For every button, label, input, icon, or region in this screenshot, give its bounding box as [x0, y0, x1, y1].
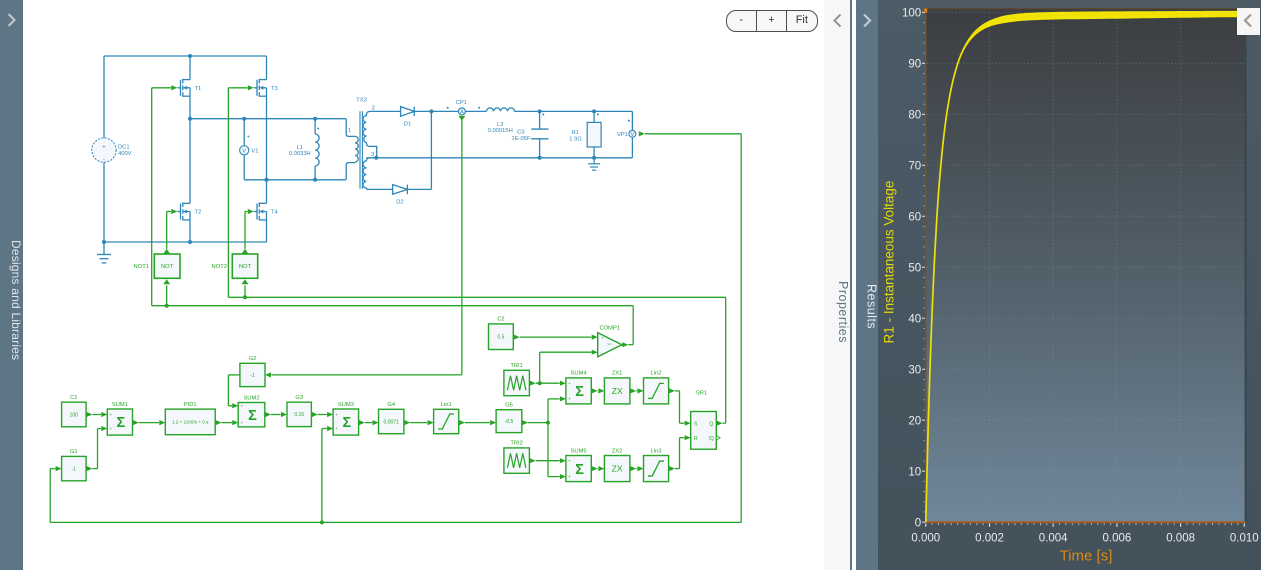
svg-text:!Q: !Q	[708, 436, 713, 442]
svg-text:Time [s]: Time [s]	[1060, 548, 1113, 565]
svg-text:Σ: Σ	[575, 462, 584, 478]
svg-text:Lin1: Lin1	[441, 402, 452, 408]
wire T1 source / T2 drain (left leg midpoint)	[189, 96, 191, 203]
svg-text:D2: D2	[396, 199, 403, 205]
svg-text:R1 - Instantaneous Voltage: R1 - Instantaneous Voltage	[882, 181, 897, 344]
axis ticks	[922, 12, 925, 522]
wire T3 drain	[266, 56, 268, 80]
wire bridge output top (node A)	[190, 118, 346, 120]
left sidebar: Designs and Libraries	[0, 0, 23, 570]
triangle-wave source TRI2	[504, 441, 530, 474]
transformer TX3	[355, 111, 393, 189]
svg-text:+: +	[568, 381, 571, 386]
inductor L2	[487, 108, 515, 134]
svg-text:ZX1: ZX1	[612, 371, 623, 377]
y tick labels	[902, 8, 921, 530]
wire T2 source	[189, 220, 191, 242]
svg-text:100: 100	[902, 8, 921, 20]
svg-text:Σ: Σ	[575, 384, 584, 400]
svg-text:1E-05F: 1E-05F	[511, 136, 530, 142]
svg-text:0.0033H: 0.0033H	[289, 151, 311, 157]
SR1 Q output arrow	[717, 421, 723, 426]
svg-text:T1: T1	[195, 86, 202, 92]
wire SUM1 to PID1	[133, 420, 139, 425]
current probe CP1	[456, 100, 467, 116]
block G5	[496, 403, 522, 433]
svg-text:SUM3: SUM3	[338, 402, 354, 408]
svg-text:V1: V1	[251, 149, 258, 155]
svg-text:0.00015H: 0.00015H	[488, 128, 513, 134]
svg-text:T2: T2	[195, 210, 202, 216]
wire CP1 to L2	[465, 110, 486, 112]
svg-text:-1: -1	[250, 373, 255, 379]
wire CP1 tap to G2	[459, 116, 466, 121]
svg-text:S: S	[694, 421, 698, 427]
flip-flop SR1	[691, 390, 720, 449]
wire G1 to SUM1	[86, 466, 92, 471]
wire T1 drain	[189, 56, 191, 80]
resistor R1	[569, 122, 601, 147]
triangle-wave source TRI1	[504, 363, 530, 396]
svg-text:C1: C1	[70, 395, 77, 401]
transistor T1	[177, 79, 190, 97]
voltage probe VP1	[617, 130, 636, 138]
svg-text:L1: L1	[297, 145, 303, 151]
transistor T3	[254, 79, 267, 97]
svg-text:0.010: 0.010	[1230, 533, 1259, 545]
svg-text:C3: C3	[517, 130, 524, 136]
curve centre line	[926, 13, 1245, 522]
svg-text:A: A	[460, 109, 464, 115]
svg-text:1.2 + 1100/s + 0.s: 1.2 + 1100/s + 0.s	[172, 420, 209, 425]
diode D2	[393, 185, 408, 195]
limiter Lin2	[644, 371, 669, 404]
svg-text:T3: T3	[271, 86, 278, 92]
svg-text:90: 90	[908, 59, 921, 71]
logic gate NOT1	[134, 254, 180, 278]
wire C2 to COMP1	[514, 335, 520, 340]
summer SUM4	[566, 371, 591, 404]
grid lines	[927, 10, 1245, 522]
wire Lin2 to SR1 S	[669, 388, 675, 393]
svg-text:+: +	[335, 412, 338, 417]
wire Lin1 to G5	[459, 420, 465, 425]
wire T4 source	[266, 220, 268, 242]
svg-text:+: +	[110, 426, 113, 431]
svg-text:Lin3: Lin3	[651, 448, 662, 454]
wire ZX2 to Lin3	[630, 466, 636, 471]
wire TRI2 to SUM5	[530, 458, 536, 463]
wire SUM4 to ZX1	[592, 388, 598, 393]
summer SUM2	[238, 395, 265, 427]
svg-text:D1: D1	[404, 121, 411, 127]
zoom buttons	[726, 10, 818, 32]
svg-text:G4: G4	[387, 402, 396, 408]
wire T3 source / T4 drain (right leg midpoint)	[266, 96, 268, 203]
svg-text:0: 0	[915, 517, 921, 529]
block ZX2	[604, 448, 630, 481]
svg-text:1.9Ω: 1.9Ω	[569, 137, 582, 143]
svg-text:Σ: Σ	[248, 408, 257, 424]
svg-text:Σ: Σ	[343, 415, 352, 431]
inductor L1	[289, 128, 319, 167]
ground (output)	[588, 158, 600, 170]
wire output top rail	[540, 111, 633, 157]
svg-text:0.006: 0.006	[1103, 533, 1132, 545]
wire R1 branch	[593, 111, 595, 157]
wire L1 branch	[314, 119, 316, 180]
svg-text:Lin2: Lin2	[651, 371, 662, 377]
100 tick highlight	[924, 9, 927, 13]
green junctions	[165, 295, 550, 524]
svg-text:TRI2: TRI2	[510, 441, 523, 447]
block C1	[62, 395, 87, 427]
wire G3 to SUM3	[312, 412, 318, 417]
wire secondary top to D1	[370, 110, 401, 112]
svg-text:50: 50	[908, 263, 921, 275]
svg-text:PID1: PID1	[184, 402, 197, 408]
svg-text:0.004: 0.004	[1039, 533, 1068, 545]
svg-text:R1: R1	[572, 130, 579, 136]
svg-text:+: +	[240, 404, 243, 409]
svg-text:3: 3	[371, 152, 374, 158]
summer SUM5	[566, 448, 591, 481]
svg-text:V: V	[630, 132, 634, 138]
comparator COMP1	[598, 325, 622, 356]
svg-text:+: +	[602, 336, 605, 341]
ground (input)	[97, 242, 111, 263]
wire V1 branch	[243, 119, 245, 180]
limiter Lin1	[434, 402, 459, 434]
svg-text:0.5: 0.5	[497, 335, 504, 341]
voltmeter V1	[240, 135, 259, 155]
curve band (ripple) of R1 voltage	[926, 11, 1245, 523]
svg-text:1: 1	[348, 128, 351, 134]
svg-text:70: 70	[908, 161, 921, 173]
wire D2 branch	[407, 111, 431, 189]
svg-text:VP1: VP1	[617, 132, 628, 138]
svg-text:NOT1: NOT1	[134, 264, 149, 270]
block G1	[62, 449, 87, 481]
wire SUM3 to G4	[359, 420, 365, 425]
svg-text:SR1: SR1	[696, 390, 707, 396]
block ZX1	[604, 371, 630, 404]
svg-text:2: 2	[372, 106, 375, 112]
svg-text:0.008: 0.008	[1166, 533, 1195, 545]
svg-text:+: +	[110, 412, 113, 417]
svg-text:Designs and Libraries: Designs and Libraries	[9, 240, 23, 360]
results sidebar	[856, 0, 878, 570]
svg-text:V: V	[242, 149, 246, 155]
svg-text:G5: G5	[505, 403, 513, 409]
svg-text:0.002: 0.002	[975, 533, 1004, 545]
svg-text:>=: >=	[607, 343, 612, 347]
collapse button over plot	[1237, 8, 1260, 35]
svg-text:+: +	[568, 474, 571, 479]
wire centre-tap ground rail	[366, 157, 632, 159]
wire SUM2 to G3	[265, 412, 271, 417]
svg-text:TRI1: TRI1	[510, 363, 523, 369]
svg-text:ZX: ZX	[612, 386, 623, 396]
svg-text:SUM4: SUM4	[571, 371, 588, 377]
wire D1 cathode to CP1	[414, 110, 458, 112]
svg-text:G2: G2	[249, 356, 257, 362]
svg-text:CP1: CP1	[456, 100, 467, 106]
svg-text:SUM1: SUM1	[112, 402, 128, 408]
wire NOT2 output to T4 gate	[245, 212, 248, 249]
svg-text:Q: Q	[709, 421, 713, 427]
diode D1	[401, 107, 415, 117]
svg-text:T4: T4	[271, 210, 279, 216]
transistor T4	[254, 203, 267, 221]
svg-text:DC1: DC1	[118, 144, 130, 150]
svg-text:+: +	[335, 426, 338, 431]
wire NOT1 input	[166, 286, 168, 306]
svg-text:COMP1: COMP1	[599, 325, 620, 331]
svg-text:TX3: TX3	[356, 98, 367, 104]
svg-text:Results: Results	[865, 284, 879, 329]
capacitor C3	[531, 129, 548, 139]
wire SR1 Q output to T3/NOT2 gate line	[228, 88, 725, 423]
svg-text:20: 20	[908, 415, 921, 427]
wire VP1 tap feedback	[639, 131, 645, 136]
svg-text:ZX: ZX	[612, 464, 623, 474]
wire top rail	[104, 56, 267, 242]
logic gate NOT2	[212, 254, 258, 278]
wire feedback to SUM3	[322, 429, 327, 523]
plot borders	[926, 8, 1246, 10]
svg-text:R: R	[694, 436, 698, 442]
wire G4 to Lin1	[404, 420, 410, 425]
dc source DC1	[92, 138, 132, 163]
wire G5 to SUM4 and SUM5	[522, 420, 528, 425]
svg-text:Σ: Σ	[117, 415, 126, 431]
limiter Lin3	[644, 448, 669, 481]
wire L2 to C3 node	[515, 110, 540, 112]
svg-text:NOT: NOT	[239, 264, 252, 270]
svg-text:-: -	[103, 157, 105, 163]
svg-text:NOT2: NOT2	[212, 264, 227, 270]
wire ZX1 to Lin2	[630, 388, 636, 393]
svg-text:-1: -1	[72, 466, 77, 472]
block G2	[240, 356, 265, 386]
x axis line	[926, 521, 1246, 523]
polarity dots	[447, 107, 630, 122]
wire NOT1 output to T2 gate	[167, 212, 171, 249]
wire TRI1 to SUM4 and COMP1	[530, 381, 536, 386]
wire C3 branch	[539, 111, 541, 157]
wire COMP1 output to T1/NOT1 gate line	[622, 342, 628, 347]
svg-text:NOT: NOT	[161, 264, 174, 270]
svg-text:SUM5: SUM5	[571, 448, 587, 454]
wire G2 output to SUM2	[228, 375, 240, 406]
svg-text:10: 10	[908, 466, 921, 478]
wire NOT2 input	[244, 286, 246, 298]
svg-text:60: 60	[908, 212, 921, 224]
wire bottom rail	[104, 241, 267, 243]
wire Lin3 to SR1 R	[669, 466, 675, 471]
summer SUM1	[107, 402, 132, 435]
transistor T2	[177, 203, 190, 221]
summer SUM3	[333, 402, 359, 435]
wire TX3 primary connections	[346, 119, 355, 180]
svg-text:0.0071: 0.0071	[384, 419, 400, 425]
blue junctions	[102, 54, 596, 244]
svg-text:400V: 400V	[118, 151, 132, 157]
block G4	[379, 402, 404, 434]
plot panel	[878, 0, 1261, 570]
plot area background	[926, 9, 1246, 523]
svg-text:+: +	[247, 135, 251, 141]
svg-text:+: +	[240, 420, 243, 425]
svg-text:0.15: 0.15	[294, 412, 304, 418]
svg-text:80: 80	[908, 110, 921, 122]
svg-text:L2: L2	[497, 122, 503, 128]
block G3	[287, 395, 311, 427]
svg-text:ZX2: ZX2	[612, 448, 623, 454]
x tick labels	[911, 533, 1258, 545]
wire PID1 to SUM2	[216, 420, 222, 425]
svg-text:Properties: Properties	[836, 281, 850, 343]
wire SUM5 to ZX2	[592, 466, 598, 471]
wire bridge output bottom (node B)	[244, 179, 346, 181]
properties panel	[824, 0, 852, 570]
svg-text:C2: C2	[497, 317, 504, 323]
block C2	[489, 317, 514, 350]
svg-text:G3: G3	[295, 395, 303, 401]
svg-text:-0.5: -0.5	[505, 419, 514, 425]
svg-text:G1: G1	[70, 449, 78, 455]
svg-text:30: 30	[908, 365, 921, 377]
svg-text:SUM2: SUM2	[243, 395, 259, 401]
svg-text:+: +	[568, 397, 571, 402]
svg-text:0.000: 0.000	[911, 533, 940, 545]
svg-text:+: +	[568, 458, 571, 463]
wire C1 to SUM1	[86, 412, 92, 417]
svg-text:40: 40	[908, 314, 921, 326]
block PID1	[165, 402, 215, 435]
schematic canvas	[23, 0, 825, 570]
svg-text:100: 100	[70, 412, 79, 418]
